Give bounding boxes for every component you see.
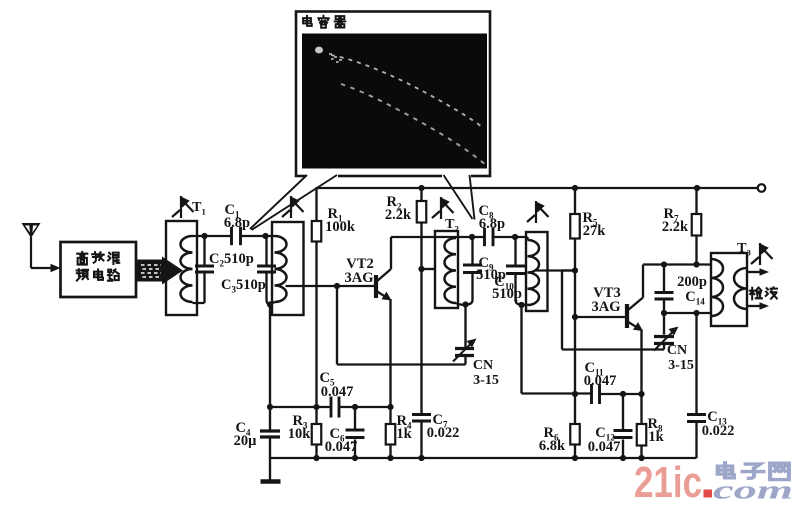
node C12 ground (620, 455, 626, 461)
node C9 top (469, 234, 475, 240)
transformer T2 shield box right (526, 232, 548, 311)
wire T2 tap to R5 (536, 269, 575, 271)
mixer block 高放混频电路 (61, 242, 137, 297)
resistor R3 (312, 424, 322, 445)
resistor R4 (386, 424, 396, 445)
callout gap cover left (306, 174, 338, 179)
wire CN2 bottom lead (663, 344, 665, 350)
tuning arrow T3 (751, 243, 773, 265)
logo 电子网 (718, 463, 734, 478)
wire VT3 emitter to R8 (640, 330, 642, 459)
wire R1-R3 chain (315, 188, 317, 458)
wire C14 leads (663, 265, 665, 314)
photo title 电容器 (303, 16, 312, 26)
node R4 ground (387, 455, 393, 461)
capacitor C12 (614, 431, 633, 438)
wire C9 branch (467, 237, 473, 305)
resistor R7 (692, 214, 702, 236)
resistor R5 (570, 214, 580, 239)
transistor VT3 (627, 298, 643, 330)
svg-text:1k: 1k (396, 426, 412, 442)
svg-text:21ic: 21ic (634, 458, 702, 500)
node R7-collector (693, 261, 699, 267)
transistor VT2 (376, 269, 391, 299)
svg-text:200p: 200p (677, 274, 707, 290)
wire T1 secondary bottom (270, 302, 275, 305)
logo dot (704, 490, 713, 498)
node C6 top (352, 404, 358, 410)
photo specks (329, 53, 342, 63)
svg-text:20μ: 20μ (234, 433, 258, 449)
svg-text:0.047: 0.047 (321, 384, 354, 400)
antenna (22, 223, 41, 238)
thick signal arrow into T1 (137, 260, 164, 282)
node R8 ground (638, 455, 644, 461)
tuning arrow T1 secondary (282, 196, 304, 218)
wire C12 branch (622, 394, 624, 458)
node T2 secondary bottom (518, 302, 524, 308)
svg-text:0.022: 0.022 (427, 425, 460, 441)
resistor R6 (570, 424, 580, 445)
svg-text:2.2k: 2.2k (385, 207, 412, 223)
capacitor C9 (463, 265, 482, 273)
callout wedge right lines (444, 175, 475, 220)
wire VT3 collector (643, 265, 711, 298)
capacitor C1 (232, 227, 241, 245)
capacitor C4 (260, 431, 280, 437)
node tap-R5 (572, 267, 578, 273)
capacitor C3 (257, 266, 276, 272)
wire C6 branch (354, 407, 356, 458)
wire supply rail (316, 187, 758, 189)
node R3 ground (313, 455, 319, 461)
ground (269, 458, 271, 481)
capacitor C11 (592, 384, 600, 404)
transformer T1 shield box right (272, 222, 304, 315)
callout gap cover right (442, 174, 471, 179)
svg-text:0.047: 0.047 (588, 439, 621, 455)
trimmer capacitor CN1 (455, 349, 474, 356)
svg-text:3AG: 3AG (345, 270, 374, 286)
svg-text:6.8p: 6.8p (479, 216, 505, 232)
wire T2 secondary bottom (522, 303, 528, 306)
wire R6 branch (574, 394, 576, 458)
wire T3 primary bottom (664, 312, 711, 314)
wire C13 branch (695, 313, 697, 458)
output arrow bottom (747, 305, 761, 307)
capacitor C5 (331, 397, 339, 418)
coil T1 secondary (275, 236, 287, 302)
node C13 top (693, 310, 699, 316)
wire C2 branch (193, 236, 205, 303)
wire CN1 top lead (464, 305, 466, 348)
photo black area (302, 34, 487, 169)
wire CN2 top lead (663, 313, 665, 335)
node rail-R2 (418, 185, 424, 191)
transformer T3 shield box (711, 253, 747, 326)
resistor R8 (637, 424, 647, 446)
node R2-T2 tap (418, 266, 424, 272)
node C7 ground (418, 455, 424, 461)
wire C10 branch (516, 237, 521, 305)
node base-CN1 (334, 283, 340, 289)
wire T2 top (456, 237, 528, 240)
coil T2 primary (445, 238, 456, 303)
wire VT2 collector to T2 (391, 237, 456, 269)
node C6 ground (352, 455, 358, 461)
wire CN2 return loop (562, 271, 664, 350)
wire T1 bottom to ground rail (269, 305, 271, 459)
node R5-C11 (572, 391, 578, 397)
wire antenna feed (31, 267, 52, 269)
wire emitter filter (270, 406, 391, 408)
svg-text:com: com (713, 476, 793, 501)
tuning arrow T2 secondary (527, 201, 549, 223)
capacitor C2 (195, 266, 214, 272)
node C10 top (512, 234, 518, 240)
node emitter filter left (267, 404, 273, 410)
label 检波 (750, 288, 762, 300)
capacitor C7 (412, 415, 431, 422)
node C12 top (620, 391, 626, 397)
resistor R1 (312, 221, 322, 242)
svg-text:1k: 1k (648, 429, 664, 445)
wire R7 (695, 188, 697, 265)
node C14 top (661, 261, 667, 267)
tuning arrow T2 (432, 197, 454, 219)
wire R5 chain (574, 188, 576, 394)
supply terminal (758, 184, 766, 192)
capacitor C8 (485, 228, 494, 246)
node R1-R3 (313, 404, 319, 410)
svg-text:6.8k: 6.8k (539, 438, 566, 454)
node T1 secondary bottom (267, 301, 273, 307)
svg-text:510p: 510p (492, 286, 522, 302)
coil T2 secondary (528, 240, 540, 305)
svg-text:3-15: 3-15 (668, 358, 694, 373)
coil T3 secondary (734, 268, 747, 309)
svg-text:100k: 100k (325, 219, 356, 235)
coil T3 primary (711, 259, 723, 316)
wire T1 primary top to C1 (193, 235, 232, 237)
node rail-R7 (694, 185, 700, 191)
arrowhead into mixer box (51, 264, 61, 272)
wire C1 to T1 secondary top (241, 235, 275, 237)
svg-text:2.2k: 2.2k (662, 219, 689, 235)
wire VT2 emitter to R4 (389, 299, 391, 458)
svg-text:6.8p: 6.8p (224, 215, 250, 231)
node C3 top (262, 233, 268, 239)
node emitter-C11 (638, 391, 644, 397)
node R6 ground (572, 455, 578, 461)
transformer T1 shield box left (166, 221, 197, 315)
photo capacitor highlight blob (315, 47, 323, 54)
capacitor C13 (687, 415, 706, 422)
node T2 primary bottom (462, 301, 468, 307)
photo capacitor lead streak 2 (341, 84, 487, 166)
wire CN1 to VT2 base (337, 286, 466, 365)
svg-text:CN: CN (473, 358, 493, 373)
tuning arrow T1 (172, 196, 194, 218)
wire T2 primary bottom (456, 303, 465, 305)
transformer T2 shield box left (435, 231, 458, 308)
wire T1 tap to VT2 base (286, 285, 375, 287)
svg-text:C3510p: C3510p (221, 277, 266, 295)
svg-text:10k: 10k (288, 426, 312, 442)
node rail-R5 (572, 185, 578, 191)
callout wedge left lines (250, 175, 337, 230)
svg-text:C2510p: C2510p (209, 251, 254, 269)
node C2 top (201, 233, 207, 239)
svg-text:0.047: 0.047 (584, 373, 617, 389)
svg-text:CN: CN (667, 343, 687, 358)
capacitor C10 (506, 266, 525, 274)
svg-text:3-15: 3-15 (473, 373, 499, 388)
svg-text:0.022: 0.022 (702, 423, 735, 439)
node emitter-R4 (387, 404, 393, 410)
capacitor C6 (346, 430, 365, 438)
wire R2 to T2 box (422, 268, 437, 270)
svg-text:27k: 27k (583, 223, 607, 239)
wire C3 branch (267, 236, 271, 305)
photo inset box (296, 12, 490, 177)
node C14 bottom (661, 310, 667, 316)
node R5-VT3 base (572, 314, 578, 320)
wire VT3 base (575, 316, 625, 318)
svg-text:0.047: 0.047 (325, 439, 358, 455)
wire C11 feedback (522, 305, 642, 394)
output arrow top (747, 271, 761, 273)
wire R2-C7 chain (420, 188, 422, 458)
trimmer capacitor CN2 (654, 337, 674, 344)
wire ground rail (270, 457, 697, 459)
coil T1 primary (180, 236, 192, 302)
capacitor C14 (655, 293, 674, 300)
photo capacitor lead streak 1 (331, 55, 482, 127)
resistor R2 (417, 201, 427, 223)
svg-text:3AG: 3AG (592, 299, 621, 315)
